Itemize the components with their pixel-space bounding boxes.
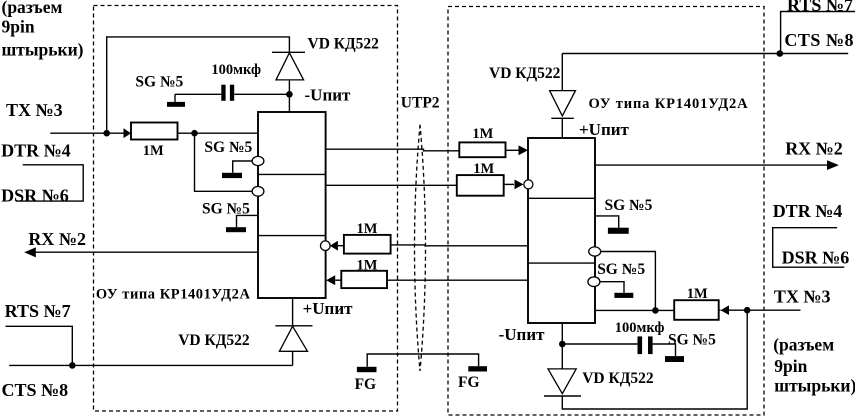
- ground SG cap left: [174, 94, 176, 102]
- wire FG link: [367, 354, 478, 367]
- resistor RTX 1М right: [674, 300, 719, 320]
- resistor RD 1М (receive pair lower): [341, 271, 387, 288]
- device 2 dashed enclosure: [448, 7, 764, 416]
- bubble output section3 left box: [321, 241, 331, 251]
- wire capacitor to -Uпит node: [234, 93, 289, 95]
- svg-text:TX №3: TX №3: [6, 100, 63, 120]
- wire RA to arrow: [506, 149, 519, 151]
- ground FG left: [357, 367, 377, 372]
- bubble output 1 right box: [589, 247, 601, 256]
- svg-text:DSR №6: DSR №6: [782, 247, 850, 267]
- resistor RC 1М (receive pair upper): [344, 235, 391, 254]
- svg-text:TX №3: TX №3: [774, 286, 831, 306]
- resistor R1 1М: [131, 123, 178, 140]
- wire bubble1 to TX node right: [601, 252, 656, 311]
- svg-text:UTP2: UTP2: [401, 94, 440, 111]
- svg-text:VD КД522: VD КД522: [308, 36, 380, 53]
- svg-text:FG: FG: [458, 374, 480, 391]
- wire RC to UTP: [391, 244, 528, 247]
- ground SG top right wire and bar: [595, 216, 619, 228]
- wire output A to UTP: [326, 149, 460, 151]
- wire -Uпит to capacitor right: [562, 343, 637, 345]
- arrow into right box bubble input B: [515, 180, 524, 190]
- svg-text:(разъем: (разъем: [773, 334, 834, 354]
- wire RB to arrow: [504, 183, 514, 185]
- svg-text:штырьки): штырьки): [2, 40, 84, 60]
- svg-text:DSR №6: DSR №6: [1, 186, 69, 206]
- svg-text:SG №5: SG №5: [204, 139, 252, 156]
- ground SG mid right wire and bar: [600, 282, 624, 293]
- svg-text:VD КД522: VD КД522: [582, 370, 654, 387]
- node RTS/CTS right: [777, 50, 784, 57]
- svg-text:RX №2: RX №2: [785, 139, 843, 159]
- svg-text:CTS №8: CTS №8: [784, 30, 854, 50]
- bubble input 1 left box: [252, 156, 264, 165]
- wire RC to bubble out: [338, 245, 344, 247]
- wire RTS stub right: [781, 12, 855, 54]
- arrow into output bubble left box: [330, 241, 338, 251]
- svg-text:1М: 1М: [357, 258, 378, 274]
- bubble output 2 right box: [588, 277, 600, 287]
- svg-text:VD КД522: VD КД522: [178, 332, 250, 349]
- wire CTS right to diode: [562, 53, 848, 55]
- wire capacitor to ground right: [653, 344, 676, 356]
- arrow into left box section3 input: [326, 275, 335, 285]
- svg-text:9pin: 9pin: [2, 16, 35, 36]
- arrow into right box input A: [519, 145, 529, 155]
- ground FG right: [468, 366, 487, 371]
- wire feedback left (node to -Uпит diode): [107, 37, 290, 133]
- svg-text:FG: FG: [355, 376, 377, 393]
- node TX right (after resistor): [652, 307, 659, 314]
- bubble input B right box: [524, 180, 533, 189]
- svg-text:штырьки): штырьки): [774, 376, 855, 396]
- wire output B to UTP: [326, 184, 457, 186]
- diode VD КД522 top-right: [550, 54, 576, 139]
- wire DTR-DSR loopback right: [773, 228, 845, 268]
- resistor RA 1М (top right): [459, 142, 505, 157]
- op-amp U1 (ОУ КР1401УД2А) left box: [258, 112, 326, 298]
- ground SG bottom right bar: [665, 356, 684, 362]
- wire TX left: [50, 132, 123, 134]
- wire TX right input: [719, 309, 801, 311]
- node -Uпит left: [286, 91, 293, 98]
- wire CTS left to diode: [9, 364, 292, 366]
- svg-text:VD КД522: VD КД522: [489, 65, 561, 82]
- label (разъем 9pin штырьки) right: [773, 334, 855, 395]
- svg-text:ОУ типа КР1401УД2А: ОУ типа КР1401УД2А: [96, 287, 251, 303]
- svg-text:(разъем: (разъем: [2, 0, 63, 17]
- label (разъем 9pin штырьки) left: [2, 0, 84, 60]
- device 1 dashed enclosure: [94, 6, 398, 412]
- wire RTS stub left: [6, 326, 73, 365]
- svg-text:DTR №4: DTR №4: [1, 140, 71, 160]
- svg-text:1М: 1М: [357, 221, 378, 237]
- svg-text:100мкф: 100мкф: [211, 62, 261, 78]
- node TX right connector: [744, 307, 751, 314]
- svg-text:1М: 1М: [687, 286, 708, 302]
- wire DTR-DSR loopback left: [16, 165, 83, 201]
- diode VD КД522 bottom-right: [544, 369, 581, 396]
- ground SG input1 wire and bar: [233, 161, 252, 173]
- svg-text:SG №5: SG №5: [135, 73, 183, 90]
- svg-text:9pin: 9pin: [774, 356, 807, 376]
- svg-text:-Uпит: -Uпит: [305, 86, 352, 105]
- svg-text:-Uпит: -Uпит: [499, 325, 546, 344]
- wire RX №2 output left: [35, 251, 258, 253]
- arrow into resistor R1: [124, 128, 132, 138]
- wire TX right from box to resistor: [595, 309, 674, 311]
- op-amp U2 (ОУ КР1401УД2А) right box: [528, 138, 595, 323]
- svg-text:1М: 1М: [473, 161, 494, 177]
- node B after R1: [191, 130, 198, 137]
- svg-text:RTS №7: RTS №7: [787, 0, 853, 15]
- resistor RB 1М (second right): [457, 175, 504, 196]
- node -Uпит right: [559, 341, 566, 348]
- ground SG section2 wire and bar: [237, 215, 259, 227]
- wire node B to inverting input bubble (section 2): [195, 133, 253, 191]
- svg-text:+Uпит: +Uпит: [303, 299, 354, 318]
- svg-text:DTR №4: DTR №4: [773, 201, 843, 221]
- capacitor C2 100мкф right: [638, 336, 643, 354]
- cable UTP2 lens: [415, 125, 426, 371]
- svg-text:1М: 1М: [143, 143, 164, 159]
- svg-text:SG №5: SG №5: [597, 261, 645, 278]
- wire RD to UTP: [387, 279, 528, 281]
- arrow RX right: [827, 160, 839, 170]
- wire TX wrap to bottom diode: [562, 310, 747, 409]
- wire RD to arrow: [335, 279, 341, 281]
- svg-text:SG №5: SG №5: [668, 332, 716, 349]
- wire R1 to node B: [178, 132, 259, 134]
- wire ground to capacitor: [175, 93, 221, 95]
- bubble input 2 left box: [252, 187, 264, 197]
- node TX feedback junction: [103, 130, 110, 137]
- svg-text:SG №5: SG №5: [605, 197, 653, 214]
- diode VD КД522 bottom-left: [275, 298, 312, 365]
- svg-text:1М: 1М: [472, 126, 493, 142]
- diode VD КД522 top-left: [272, 52, 305, 112]
- svg-text:ОУ типа КР1401УД2А: ОУ типа КР1401УД2А: [589, 96, 749, 112]
- wire RX №2 right: [595, 164, 828, 166]
- node RTS/CTS left: [69, 362, 76, 369]
- capacitor C1 100мкф: [221, 85, 225, 101]
- arrow RX left: [24, 247, 36, 257]
- svg-text:RX №2: RX №2: [28, 229, 86, 249]
- arrow into RTX: [721, 305, 730, 315]
- wire right box bottom to diode: [561, 323, 563, 369]
- svg-text:RTS №7: RTS №7: [5, 301, 71, 321]
- svg-text:100мкф: 100мкф: [615, 320, 665, 336]
- svg-text:CTS №8: CTS №8: [2, 380, 69, 400]
- svg-text:+Uпит: +Uпит: [579, 120, 630, 139]
